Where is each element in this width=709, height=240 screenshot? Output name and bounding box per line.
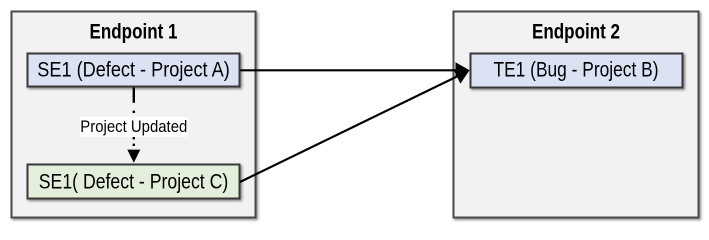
arrowhead of horizontal arrow (456, 62, 470, 78)
svg-text:Endpoint 2: Endpoint 2 (532, 21, 620, 44)
arrowhead of diagonal arrow (453, 69, 469, 83)
solid start segment of dotted connector (133, 88, 135, 103)
svg-text:SE1 (Defect - Project A): SE1 (Defect - Project A) (37, 58, 230, 81)
endpoint 1 container box (12, 12, 256, 218)
arrowhead of dotted connector (127, 150, 140, 163)
wire dotted connector from SE1 Project A down to SE1 Project C (133, 111, 135, 148)
svg-text:TE1 (Bug - Project B): TE1 (Bug - Project B) (494, 58, 659, 81)
svg-text:Project Updated: Project Updated (80, 118, 187, 136)
label background Project Updated (80, 117, 188, 137)
node SE1 Project A box (28, 54, 240, 87)
svg-text:SE1( Defect - Project C): SE1( Defect - Project C) (39, 170, 229, 193)
node TE1 Project B box (471, 54, 683, 88)
wire diagonal arrow from SE1 Project C to TE1 (240, 77, 457, 183)
wire horizontal arrow from SE1 Project A to TE1 (241, 69, 457, 71)
endpoint 2 container box (454, 12, 699, 218)
svg-text:Endpoint 1: Endpoint 1 (90, 21, 178, 44)
node SE1 Project C box (28, 165, 240, 199)
